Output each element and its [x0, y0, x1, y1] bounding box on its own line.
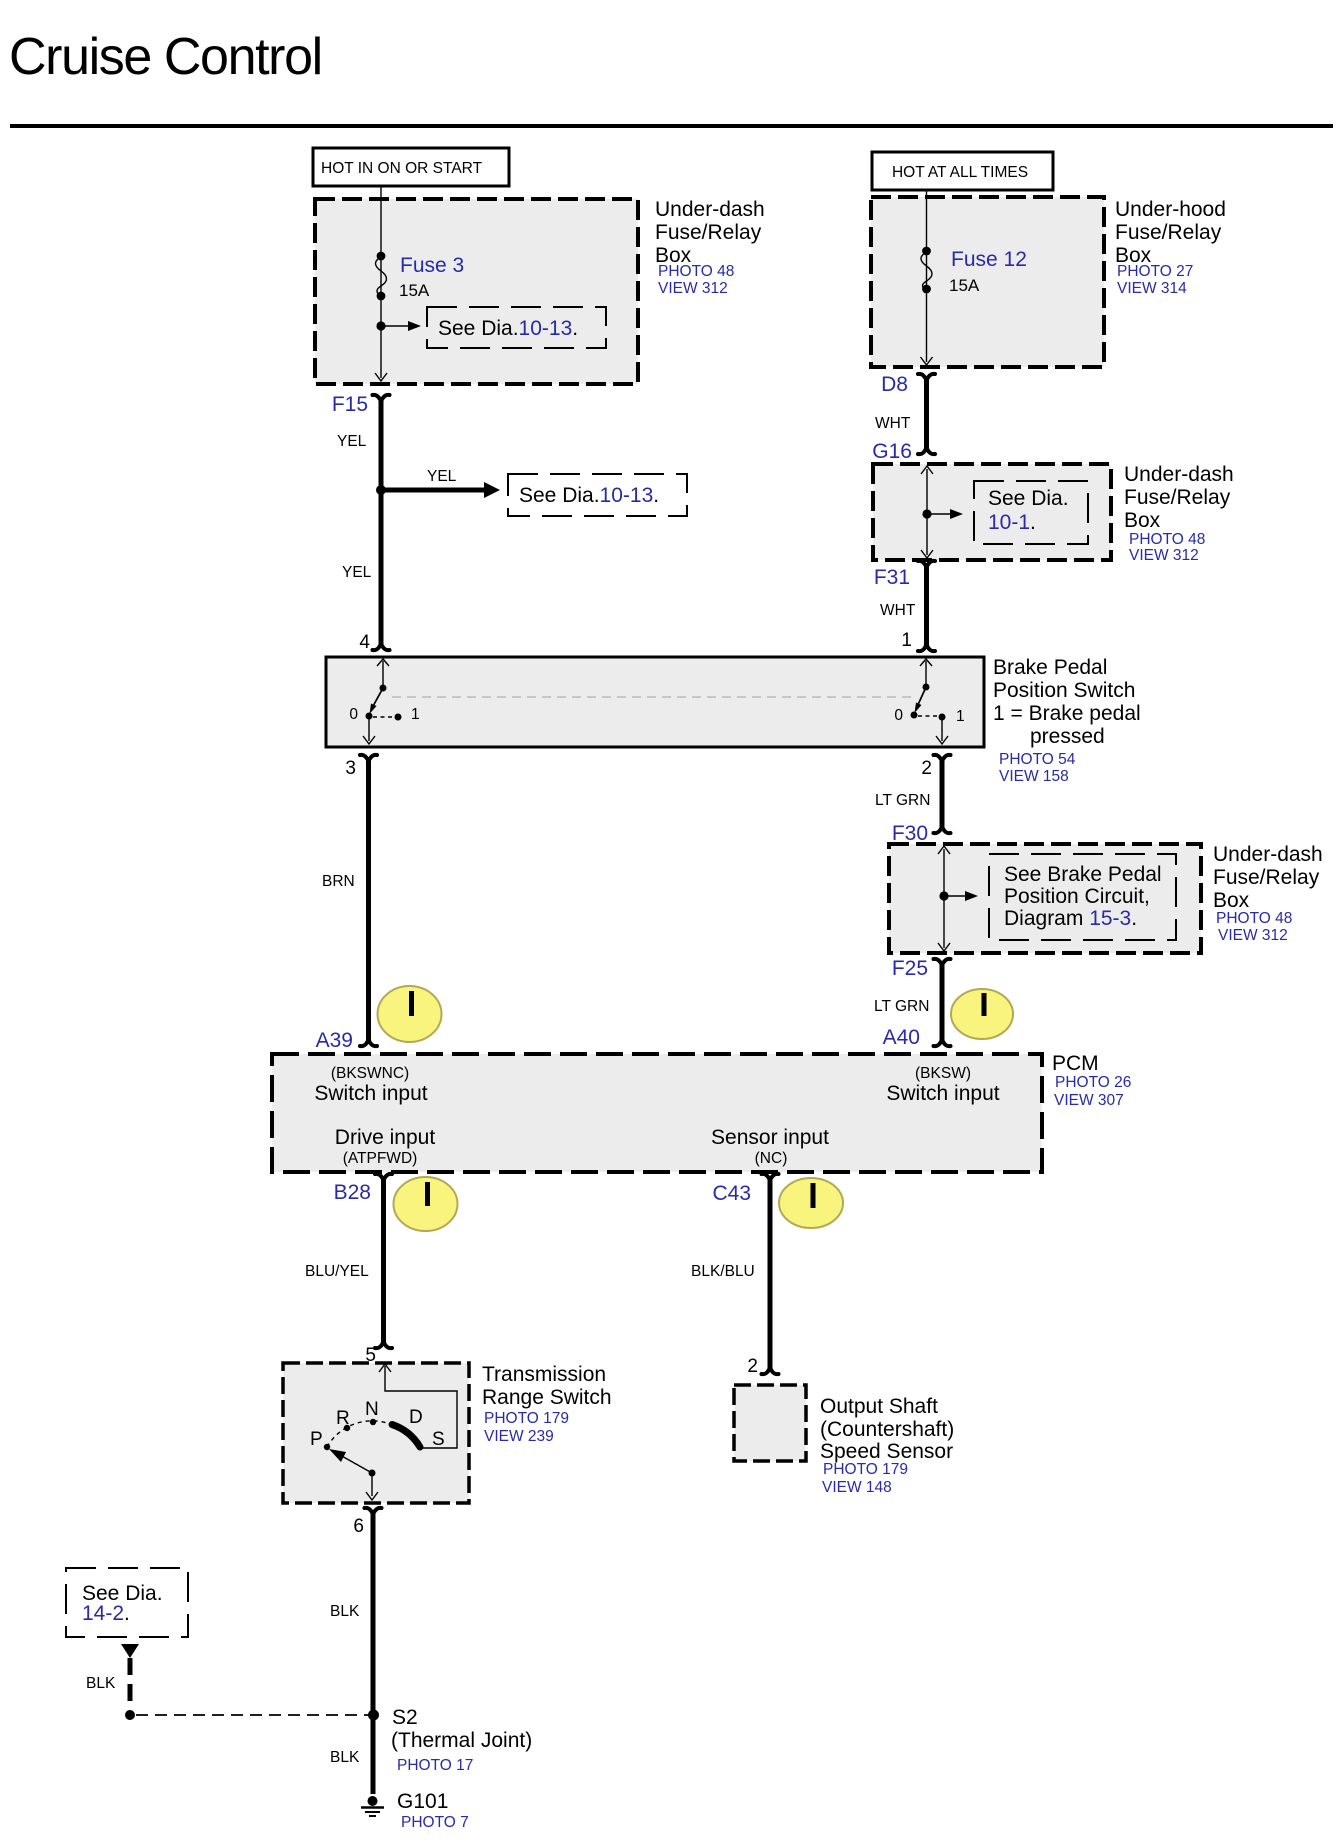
svg-text:BLK/BLU: BLK/BLU — [691, 1263, 755, 1280]
svg-text:6: 6 — [353, 1516, 364, 1537]
label Brake Pedal Position Switch — [993, 656, 1141, 785]
svg-text:pressed: pressed — [1030, 725, 1105, 748]
splice S2 — [368, 1706, 532, 1774]
svg-text:(NC): (NC) — [755, 1150, 788, 1167]
svg-text:1: 1 — [411, 706, 420, 723]
svg-text:VIEW 158: VIEW 158 — [999, 768, 1069, 785]
svg-text:10-1.: 10-1. — [988, 511, 1036, 534]
svg-text:15A: 15A — [399, 281, 430, 300]
svg-text:P: P — [310, 1429, 323, 1450]
wire pin6 to G101 (BLK) — [371, 1511, 376, 1794]
PCM pin B28 labels — [335, 1126, 436, 1167]
svg-text:R: R — [336, 1408, 350, 1429]
label Output Shaft Speed Sensor — [820, 1395, 954, 1496]
svg-text:PHOTO 17: PHOTO 17 — [397, 1757, 473, 1774]
wire inside fuse box — [380, 200, 382, 378]
svg-text:VIEW 312: VIEW 312 — [1129, 547, 1199, 564]
connector C43 — [712, 1174, 778, 1205]
svg-text:(Thermal Joint): (Thermal Joint) — [391, 1729, 532, 1752]
svg-text:VIEW 239: VIEW 239 — [484, 1428, 554, 1445]
ground G101 — [361, 1790, 469, 1831]
arrow into D8 — [921, 357, 933, 365]
arrow to See Dia. 10-1 — [930, 509, 963, 519]
svg-text:S: S — [432, 1429, 445, 1450]
svg-text:Position Switch: Position Switch — [993, 679, 1135, 702]
Transmission Range Switch box — [283, 1363, 469, 1503]
svg-text:0: 0 — [894, 707, 903, 724]
svg-text:Diagram 15-3.: Diagram 15-3. — [1004, 907, 1137, 930]
svg-text:BLK: BLK — [86, 1675, 116, 1692]
wire C43 to pin 2 (BLK/BLU) — [768, 1177, 773, 1371]
position labels P R N D S — [310, 1399, 445, 1450]
arrow from 14-2 box — [121, 1644, 139, 1658]
svg-text:PHOTO 179: PHOTO 179 — [484, 1410, 569, 1427]
arrow to See Dia. 10-13 (inside box) — [384, 321, 421, 331]
splice marker near A39 — [378, 986, 442, 1042]
svg-text:LT GRN: LT GRN — [875, 792, 930, 809]
arrow into F15 — [375, 373, 387, 381]
switch S2 (pins 1-2) — [911, 659, 949, 744]
label HOT IN ON OR START — [313, 148, 509, 186]
svg-text:Speed Sensor: Speed Sensor — [820, 1440, 953, 1463]
PCM pin C43 labels — [711, 1126, 829, 1167]
svg-text:2: 2 — [747, 1356, 758, 1377]
svg-text:1 = Brake pedal: 1 = Brake pedal — [993, 702, 1141, 725]
svg-text:YEL: YEL — [427, 468, 457, 485]
Under-hood Fuse/Relay Box (Fuse 12) — [871, 197, 1104, 367]
internal wiring elbow — [379, 1364, 457, 1448]
svg-text:Box: Box — [1124, 509, 1161, 532]
pin 6 — [353, 1508, 381, 1537]
svg-text:PHOTO 48: PHOTO 48 — [1129, 531, 1205, 548]
rotary contact arc (dashed) — [327, 1421, 390, 1447]
selected range segment (thick arc D-S) — [392, 1425, 420, 1448]
pin 3 — [345, 755, 377, 779]
contact P — [324, 1444, 330, 1450]
svg-text:WHT: WHT — [875, 415, 911, 432]
svg-text:YEL: YEL — [342, 564, 372, 581]
svg-text:Fuse 12: Fuse 12 — [951, 248, 1027, 271]
pin 2 (speed sensor) — [747, 1356, 778, 1377]
connector F25 — [892, 957, 951, 980]
svg-text:G16: G16 — [872, 440, 912, 463]
svg-text:Fuse/Relay: Fuse/Relay — [655, 221, 762, 244]
svg-text:A40: A40 — [883, 1026, 920, 1049]
svg-text:C43: C43 — [712, 1182, 751, 1205]
svg-text:BLU/YEL: BLU/YEL — [305, 1263, 369, 1280]
connector A39 — [316, 1029, 377, 1052]
svg-text:F31: F31 — [874, 566, 910, 589]
label HOT AT ALL TIMES — [872, 152, 1053, 190]
Under-dash Fuse/Relay Box (F30/F25) — [889, 844, 1201, 953]
junction in G16 box — [922, 509, 931, 518]
switch S1 (pins 4-3) — [363, 659, 402, 744]
svg-text:1: 1 — [901, 630, 912, 651]
dashed wire BLK to splice — [128, 1658, 133, 1708]
svg-text:Switch input: Switch input — [886, 1082, 999, 1105]
svg-text:Fuse/Relay: Fuse/Relay — [1213, 866, 1320, 889]
svg-text:VIEW 312: VIEW 312 — [1218, 927, 1288, 944]
junction on YEL wire — [376, 485, 386, 495]
rule — [10, 124, 1333, 128]
svg-text:Under-hood: Under-hood — [1115, 198, 1226, 221]
connector A40 — [883, 1026, 951, 1049]
pin 1 — [901, 630, 935, 651]
connector D8 — [881, 373, 935, 396]
svg-text:(ATPFWD): (ATPFWD) — [343, 1150, 418, 1167]
svg-text:PHOTO 179: PHOTO 179 — [823, 1461, 908, 1478]
Brake Pedal Position Switch box — [326, 657, 984, 747]
svg-text:Fuse 3: Fuse 3 — [400, 254, 464, 277]
label Under-dash Fuse/Relay Box (right) — [1124, 463, 1234, 564]
See Dia. 14-2. reference box — [66, 1568, 188, 1637]
connector F15 — [332, 393, 390, 416]
svg-text:YEL: YEL — [337, 433, 367, 450]
svg-text:VIEW 314: VIEW 314 — [1117, 280, 1187, 297]
svg-text:Brake Pedal: Brake Pedal — [993, 656, 1107, 679]
splice marker near A40 — [951, 989, 1013, 1039]
connector F30 — [892, 822, 951, 845]
svg-text:Range Switch: Range Switch — [482, 1386, 612, 1409]
svg-text:See Brake Pedal: See Brake Pedal — [1004, 863, 1162, 886]
splice marker near B28 — [394, 1177, 458, 1231]
junction in F30 box — [939, 891, 948, 900]
svg-text:BLK: BLK — [330, 1603, 360, 1620]
Under-dash Fuse/Relay Box (Fuse 3) — [315, 199, 638, 384]
svg-text:Under-dash: Under-dash — [1124, 463, 1234, 486]
See Dia.10-13. reference box (branch) — [508, 474, 687, 516]
svg-text:(BKSW): (BKSW) — [915, 1065, 971, 1082]
svg-text:B28: B28 — [334, 1181, 371, 1204]
svg-text:4: 4 — [359, 632, 370, 653]
wire F25 to A40 (LT GRN) — [940, 962, 945, 1043]
svg-text:D: D — [409, 1407, 423, 1428]
svg-text:PHOTO 26: PHOTO 26 — [1055, 1074, 1131, 1091]
svg-text:S2: S2 — [392, 1706, 418, 1729]
svg-text:F15: F15 — [332, 393, 368, 416]
pin 5 — [365, 1342, 392, 1367]
svg-text:HOT AT ALL TIMES: HOT AT ALL TIMES — [892, 164, 1028, 181]
wiper lever with arrow — [329, 1449, 376, 1477]
svg-text:1: 1 — [956, 708, 965, 725]
connector F31 — [874, 561, 935, 589]
Under-dash Fuse/Relay Box (G16/F31) — [873, 464, 1111, 560]
svg-text:PHOTO 7: PHOTO 7 — [401, 1814, 469, 1831]
svg-text:Drive input: Drive input — [335, 1126, 436, 1149]
wire inside G16 box with arrows both ends — [921, 466, 933, 558]
label PCM — [1052, 1052, 1131, 1109]
svg-text:A39: A39 — [316, 1029, 353, 1052]
svg-text:Transmission: Transmission — [482, 1363, 606, 1386]
pin 2 — [921, 755, 950, 779]
svg-text:BRN: BRN — [322, 873, 355, 890]
svg-text:G101: G101 — [397, 1790, 448, 1813]
svg-text:F25: F25 — [892, 957, 928, 980]
svg-text:PHOTO 48: PHOTO 48 — [1216, 910, 1292, 927]
svg-text:15A: 15A — [949, 276, 980, 295]
svg-text:Box: Box — [1213, 889, 1250, 912]
PCM box — [272, 1054, 1042, 1172]
wire pin3 to A39 (BRN) — [366, 758, 371, 1043]
contact R — [344, 1425, 350, 1431]
dashed link line between switches — [392, 696, 916, 698]
See Dia. 10-1. reference box — [974, 481, 1088, 544]
svg-text:See Dia.10-13.: See Dia.10-13. — [438, 317, 578, 340]
wire B28 to pin 5 (BLU/YEL) — [381, 1177, 386, 1345]
wire stub from HOT label to under-hood box — [926, 190, 928, 199]
wire stub from HOT label to fuse box — [380, 186, 382, 200]
svg-text:See Dia.: See Dia. — [988, 487, 1069, 510]
wire D8 to G16 (WHT) — [924, 378, 929, 450]
svg-text:0: 0 — [349, 706, 358, 723]
junction in fuse box — [376, 321, 385, 330]
pin 4 — [359, 632, 389, 653]
wiper output line — [366, 1476, 378, 1500]
fuse F12 symbol — [921, 247, 932, 294]
connector B28 — [334, 1174, 392, 1204]
connector G16 — [872, 440, 935, 463]
svg-text:VIEW 312: VIEW 312 — [658, 280, 728, 297]
wire F15 to pin 4 (YEL) — [379, 398, 384, 647]
Output Shaft Speed Sensor box — [734, 1385, 806, 1461]
svg-text:See Dia.10-13.: See Dia.10-13. — [519, 484, 659, 507]
arrow to See Brake Pedal box — [947, 891, 978, 901]
svg-text:LT GRN: LT GRN — [874, 998, 929, 1015]
svg-text:PCM: PCM — [1052, 1052, 1099, 1075]
svg-text:(Countershaft): (Countershaft) — [820, 1418, 954, 1441]
svg-text:BLK: BLK — [330, 1749, 360, 1766]
See Brake Pedal Position Circuit reference box — [989, 854, 1176, 940]
svg-text:VIEW 148: VIEW 148 — [822, 1479, 892, 1496]
svg-text:Position Circuit,: Position Circuit, — [1004, 885, 1150, 908]
svg-text:2: 2 — [921, 758, 932, 779]
label Under-dash Fuse/Relay Box (F30) — [1213, 843, 1323, 944]
dashed link to S2 — [136, 1714, 368, 1716]
svg-text:Under-dash: Under-dash — [655, 198, 765, 221]
See Dia. 10-13. reference box (inside fuse box) — [427, 307, 606, 348]
svg-text:VIEW 307: VIEW 307 — [1054, 1092, 1124, 1109]
svg-text:Output Shaft: Output Shaft — [820, 1395, 938, 1418]
svg-text:Under-dash: Under-dash — [1213, 843, 1323, 866]
wire F31 to pin 1 (WHT) — [924, 565, 929, 648]
svg-text:Sensor input: Sensor input — [711, 1126, 829, 1149]
svg-text:3: 3 — [345, 758, 356, 779]
svg-text:Fuse/Relay: Fuse/Relay — [1124, 486, 1231, 509]
wire inside F30 box with arrows both ends — [938, 846, 950, 951]
svg-text:(BKSWNC): (BKSWNC) — [331, 1065, 409, 1082]
svg-text:Fuse/Relay: Fuse/Relay — [1115, 221, 1222, 244]
wire inside under-hood box — [926, 198, 928, 362]
contact N — [370, 1419, 376, 1425]
PCM pin A40 labels — [886, 1065, 999, 1105]
label Transmission Range Switch — [482, 1363, 612, 1445]
svg-text:Switch input: Switch input — [314, 1082, 427, 1105]
thick arrow to See Dia.10-13 — [381, 482, 500, 498]
svg-text:PHOTO 48: PHOTO 48 — [658, 263, 734, 280]
label Under-dash Fuse/Relay Box — [655, 198, 765, 297]
svg-text:F30: F30 — [892, 822, 928, 845]
label Under-hood Fuse/Relay Box — [1115, 198, 1226, 297]
svg-text:PHOTO 54: PHOTO 54 — [999, 751, 1076, 768]
junction on branch — [125, 1710, 135, 1720]
svg-text:HOT IN ON OR START: HOT IN ON OR START — [321, 160, 483, 177]
wire pin2 to F30 (LT GRN) — [940, 758, 945, 830]
svg-text:N: N — [365, 1399, 379, 1420]
svg-text:D8: D8 — [881, 373, 908, 396]
svg-text:14-2.: 14-2. — [82, 1602, 130, 1625]
PCM pin A39 labels — [314, 1065, 427, 1105]
svg-text:Cruise Control: Cruise Control — [9, 28, 322, 86]
svg-text:PHOTO 27: PHOTO 27 — [1117, 263, 1193, 280]
svg-text:WHT: WHT — [880, 602, 916, 619]
splice marker near C43 — [779, 1178, 843, 1228]
fuse F3 symbol — [376, 252, 387, 301]
